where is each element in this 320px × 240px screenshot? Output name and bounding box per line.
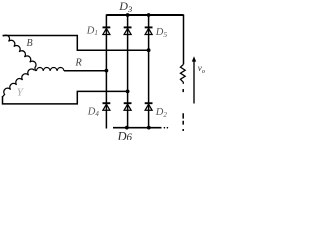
junction dot: phase B to leg 3 (147, 48, 151, 52)
dashed wire bottom-right (182, 113, 184, 124)
junction dot: phase Y to leg 2 (126, 90, 130, 94)
svg-text:D2: D2 (155, 107, 168, 119)
wire: phase R to bridge leg 1 (35, 70, 106, 71)
dotted continuation of bottom rail (164, 127, 166, 129)
dashed continuation below load (182, 89, 184, 92)
wire: right vertical from top rail to load (183, 15, 185, 65)
diode D3 (124, 27, 132, 34)
svg-text:B: B (27, 38, 33, 49)
diode D4 (103, 103, 111, 110)
wire: bottom rail (negative DC bus) (113, 127, 162, 129)
junction dot: leg 3 on top rail (147, 13, 151, 17)
diode D6 (124, 103, 132, 110)
junction dot: phase R to leg 1 (105, 69, 109, 73)
wire: bridge leg 1 vertical (105, 15, 107, 129)
voltage arrow vo (193, 61, 195, 104)
winding Y (phase Y of wye source) (3, 69, 35, 96)
winding R (phase R of wye source) (36, 68, 64, 71)
svg-text:R: R (74, 58, 82, 69)
diode D5 (145, 27, 153, 34)
winding B (phase B of wye source) (3, 35, 36, 70)
svg-text:D1: D1 (86, 26, 98, 38)
wire: top rail (positive DC bus) (106, 14, 183, 16)
junction dot: leg 3 on bottom rail (147, 126, 151, 130)
wire: bridge leg 2 vertical (127, 15, 129, 128)
load element (zigzag) (180, 64, 185, 84)
junction dot: leg 2 on top rail (126, 13, 130, 17)
svg-text:vo: vo (198, 63, 206, 75)
diode D2 (145, 103, 153, 110)
wire: bridge leg 3 vertical (148, 15, 150, 128)
wire: phase B terminal to bridge (steps down at x=77) (3, 36, 149, 51)
svg-text:D5: D5 (155, 27, 168, 39)
svg-text:Y: Y (17, 86, 25, 98)
diode D1 (103, 27, 111, 34)
svg-text:D4: D4 (87, 107, 100, 119)
wire: phase Y terminal to bridge (bottom path, steps up at x=77) (3, 91, 128, 104)
svg-text:D3: D3 (118, 0, 132, 14)
junction dot: leg 2 on bottom rail (125, 126, 129, 130)
svg-text:D6: D6 (117, 129, 133, 140)
